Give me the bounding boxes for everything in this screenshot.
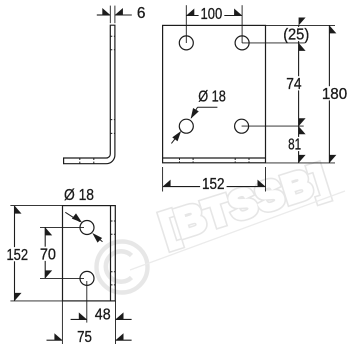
dim chain bottom extension — [266, 162, 336, 164]
dim 48 arrows — [79, 312, 87, 319]
dim 70 label — [38, 247, 58, 261]
dim 70 arrows — [45, 227, 52, 235]
svg-text:(25): (25) — [283, 27, 309, 44]
svg-text:Ø 18: Ø 18 — [64, 187, 94, 204]
front dia 18 leader — [198, 106, 218, 108]
dim 152 left line — [14, 206, 16, 301]
front hole top-right — [235, 36, 249, 50]
top view hole2 — [80, 271, 94, 285]
dim 48 line — [71, 318, 87, 320]
dim 100 arrows — [186, 9, 194, 16]
front hole bottom-right — [235, 119, 249, 133]
dim 70 line — [44, 227, 46, 278]
svg-text:70: 70 — [40, 246, 56, 263]
svg-text:75: 75 — [77, 329, 92, 346]
dim 81 label — [286, 137, 303, 151]
dim 75 line — [47, 339, 63, 341]
side view hole1 dashed edges — [110, 35, 115, 37]
dim 180 arrows — [329, 25, 336, 33]
dim 75 extension line — [61, 301, 63, 344]
svg-text:Ø 18: Ø 18 — [198, 89, 226, 106]
dim chain top extension — [266, 24, 336, 26]
dim 74 label — [284, 76, 303, 90]
top view dia 18 leader — [65, 212, 80, 221]
dim 100 label — [199, 6, 225, 20]
top view bend line — [110, 206, 112, 301]
watermark copyright symbol — [97, 242, 148, 293]
dim 6 extension lines — [109, 6, 111, 24]
dim 152 front extension lines — [162, 167, 164, 192]
svg-text:48: 48 — [95, 307, 111, 324]
dim 152 left label — [5, 247, 31, 261]
top view hole1 — [80, 221, 94, 235]
front view flange hole dashes — [179, 158, 181, 163]
watermark underline — [130, 191, 345, 270]
dim (25) label — [281, 27, 311, 41]
front hole center lines — [185, 5, 187, 43]
side view L-profile outline — [64, 25, 115, 164]
svg-text:180: 180 — [322, 86, 347, 103]
svg-text:100: 100 — [201, 6, 223, 23]
top view hole center lines — [40, 226, 84, 228]
front view plate outline — [163, 25, 266, 162]
dim 6 line — [97, 14, 111, 16]
dim 152 front line — [163, 186, 266, 188]
svg-text:6: 6 — [137, 5, 146, 22]
dim 180 label — [320, 86, 349, 100]
side view leg hole dashed edges — [79, 158, 81, 164]
dim 152 left extension lines — [10, 205, 62, 207]
dim 152 front arrows — [163, 180, 171, 187]
dim 48 extension lines — [86, 281, 88, 323]
dim 180 line — [328, 25, 330, 163]
top view dia 18 second arrow — [97, 237, 103, 242]
dim 6 arrows — [102, 8, 110, 15]
front hole top-left — [179, 36, 193, 50]
dim 152 front label — [200, 176, 227, 190]
side view hole2 dashed edges — [110, 119, 115, 121]
svg-text:152: 152 — [202, 176, 225, 193]
svg-text:74: 74 — [286, 76, 302, 93]
dim chain line — [298, 26, 300, 163]
dim 100 line — [186, 15, 242, 17]
watermark BTSSB text — [156, 158, 333, 251]
front view bend line — [163, 157, 266, 159]
svg-text:81: 81 — [288, 137, 301, 154]
dim chain arrows — [299, 18, 306, 26]
svg-text:152: 152 — [6, 247, 28, 264]
svg-text:[BTSSB]: [BTSSB] — [156, 158, 333, 251]
top view flange hole dashes — [111, 220, 116, 222]
dim 75 arrows — [54, 333, 62, 340]
dim 152 left arrows — [15, 206, 22, 214]
front dia 18 second arrow — [171, 136, 177, 143]
front hole bottom-left — [179, 119, 193, 133]
top view leg outline — [63, 206, 116, 301]
